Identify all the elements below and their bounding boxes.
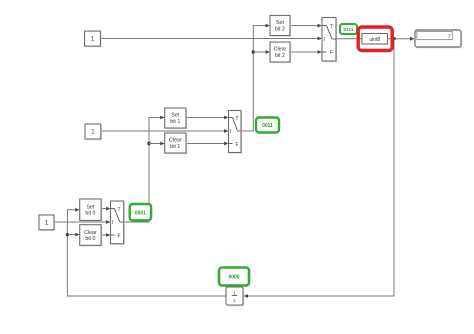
svg-text:F: F [118, 234, 121, 240]
value label 0011 [256, 118, 279, 133]
wire switch2 output to uint8 to display [336, 37, 415, 41]
svg-text:T: T [236, 116, 239, 122]
svg-text:T: T [118, 207, 121, 213]
wire switch0 output to bit1 set/clear riser [124, 116, 165, 222]
svg-text:0000: 0000 [228, 275, 239, 281]
node junction riser to clear bit0 [66, 233, 80, 237]
svg-text:Set: Set [171, 113, 179, 119]
svg-text:1: 1 [233, 290, 236, 295]
svg-text:0011: 0011 [262, 123, 273, 129]
switch block bit 1 [229, 111, 243, 154]
value label 0000 [219, 268, 249, 286]
switch block bit 0 [111, 201, 125, 245]
value label 0111 [340, 24, 357, 34]
unit delay block 1/z [226, 287, 244, 306]
svg-text:bit 0: bit 0 [85, 211, 95, 217]
wire clear bit2 output to switch2 F input [290, 50, 322, 54]
wire clear bit1 output to switch1 F input [186, 142, 229, 146]
svg-text:F: F [330, 50, 333, 56]
wire set bit1 output to switch1 T input [186, 116, 229, 120]
block Set bit 1 [165, 108, 188, 129]
switch block bit 2 [322, 18, 337, 63]
block Clear bit 0 [80, 225, 103, 247]
value label 0001 [130, 204, 151, 220]
svg-text:F: F [236, 142, 239, 148]
node junction after uint8 [392, 37, 395, 40]
svg-text:bit 1: bit 1 [170, 144, 180, 150]
wire constant2 to switch2 control [101, 37, 322, 41]
display block showing 7 [415, 30, 462, 48]
svg-text:0001: 0001 [135, 210, 146, 216]
node junction riser to clear bit1 [147, 142, 164, 146]
node junction riser to clear bit2 [252, 50, 270, 54]
svg-text:0111: 0111 [343, 27, 353, 33]
svg-text:Clear: Clear [84, 230, 97, 236]
wire switch1 output to bit2 set/clear riser [241, 24, 270, 131]
wire set bit2 output to switch2 T input [290, 24, 322, 28]
constant block value 1 (bit 1 control) [85, 124, 102, 140]
svg-text:bit 2: bit 2 [275, 26, 285, 32]
constant block value 1 (bit 0 control) [39, 215, 55, 231]
red highlight box around uint8 conversion [358, 27, 392, 51]
data type conversion block uint8 [362, 34, 388, 45]
svg-text:bit 2: bit 2 [275, 53, 285, 59]
wire feedback from uint8 output down to unit delay input [244, 39, 395, 298]
svg-text:bit 0: bit 0 [85, 236, 95, 242]
wire clear bit0 output to switch0 F input [101, 233, 110, 237]
block Set bit 0 [80, 199, 103, 222]
constant block value 1 (bit 2 control) [85, 31, 102, 47]
block Clear bit 2 [270, 42, 291, 63]
svg-text:Set: Set [86, 204, 94, 210]
block Set bit 2 [270, 16, 291, 37]
svg-text:T: T [330, 24, 333, 30]
wire constant0 to switch0 control [54, 220, 111, 224]
wire unit delay output to bit0 set/clear riser [67, 208, 226, 296]
block Clear bit 1 [165, 133, 188, 154]
svg-text:Set: Set [276, 20, 284, 26]
svg-text:Clear: Clear [169, 138, 182, 144]
svg-text:7: 7 [448, 34, 451, 40]
svg-text:bit 1: bit 1 [170, 119, 180, 125]
svg-text:uint8: uint8 [369, 37, 380, 43]
svg-text:Clear: Clear [274, 47, 287, 53]
wire constant1 to switch1 control [101, 129, 229, 133]
wire set bit0 output to switch0 T input [101, 207, 110, 211]
